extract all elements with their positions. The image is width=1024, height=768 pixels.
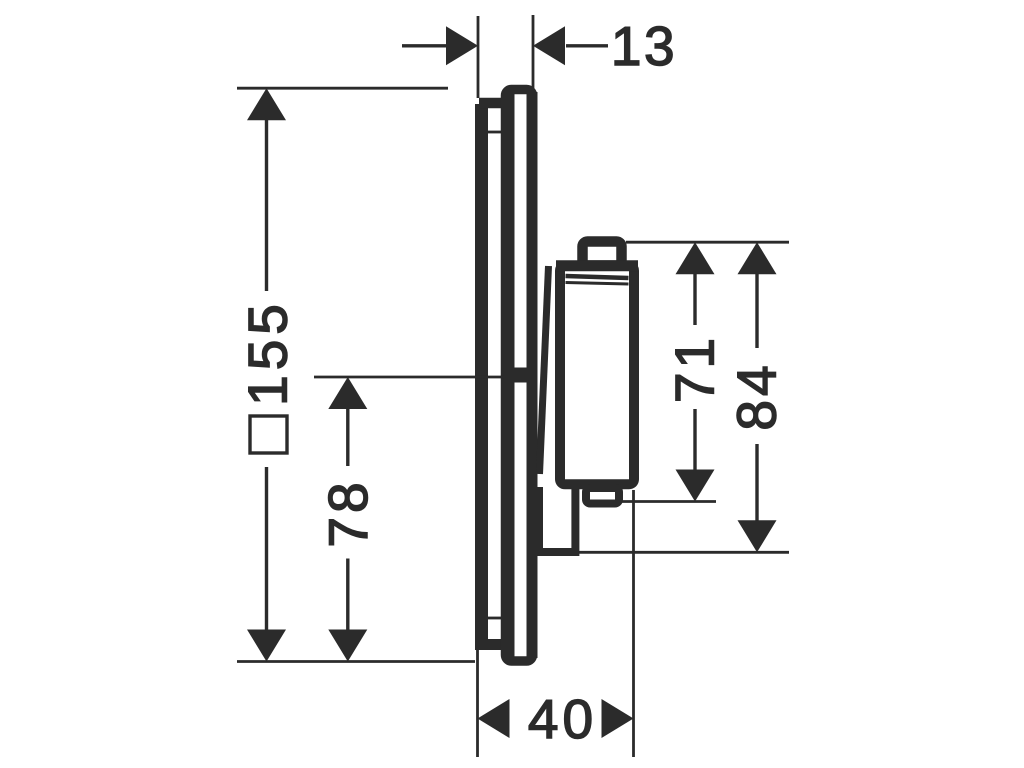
svg-text:71: 71 [664, 334, 726, 403]
arrowhead 13 right (points left) [533, 26, 565, 65]
arrowhead 71 top (points up) [676, 242, 715, 274]
dimension 13 left arrow tail [402, 44, 446, 47]
front plate (155x155 escutcheon) [506, 90, 533, 662]
handle body top edge reinforced [556, 260, 638, 271]
dimension 84 line upper segment [755, 272, 758, 348]
svg-text:155: 155 [237, 299, 299, 406]
label square 155 symbol [250, 416, 287, 453]
svg-text:40: 40 [528, 688, 597, 750]
back plate left edge [475, 104, 488, 650]
svg-text:13: 13 [611, 15, 677, 77]
extension line: 155 top [237, 87, 448, 90]
arrowhead 78 bottom (points down) [328, 630, 367, 662]
arrowhead 40 right (points right) [602, 699, 634, 738]
arrowhead 84 bottom (points down) [738, 520, 777, 552]
extension line: 78 top (plate centre split) [314, 376, 504, 379]
arrowhead 13 left (points right) [446, 26, 478, 65]
svg-text:84: 84 [726, 361, 788, 430]
bottom cap [586, 488, 619, 504]
extension line: 84 bottom (housing bottom) [577, 551, 789, 554]
dimension 84 line lower segment [755, 444, 758, 522]
handle body double line 2 [566, 283, 629, 285]
back plate corner tick bottom [488, 617, 503, 620]
arrowhead 40 left (points left) [478, 699, 510, 738]
svg-text:78: 78 [317, 478, 379, 547]
back plate corner tick top [488, 131, 503, 134]
dimension 71 line lower segment [693, 409, 696, 471]
handle body double line 1 [566, 276, 629, 278]
front plate right edge reinforced [527, 92, 538, 658]
handle body [560, 266, 634, 485]
dimension 13 right arrow tail [566, 44, 608, 47]
arrowhead 155 bottom (points down) [247, 630, 286, 662]
extension line: 71/84 top (cap top) [626, 241, 789, 244]
arrowhead 155 top (points up) [247, 88, 286, 120]
front plate left edge reinforced [503, 92, 515, 658]
front plate seam block [512, 368, 528, 383]
arrowhead 71 bottom (points down) [676, 470, 715, 502]
extension line: 155/78 bottom [237, 660, 475, 663]
back plate top edge [479, 98, 503, 109]
back plate bottom edge [475, 639, 503, 650]
extension line: wall plane top (13 left) [477, 16, 480, 103]
back plate fill [475, 98, 503, 650]
top cap (handle knob) [583, 242, 622, 266]
lower housing step [539, 487, 575, 552]
sleeve line behind handle [540, 266, 549, 474]
extension line: 71 bottom (cap bottom) [621, 500, 716, 503]
dimension 78 line upper segment [346, 407, 349, 466]
extension line: 40 left (wall plane bottom) [476, 643, 479, 757]
arrowhead 78 top (points up) [328, 377, 367, 409]
dimension 78 line lower segment [346, 559, 349, 632]
arrowhead 84 top (points up) [738, 242, 777, 274]
dimension 155 line lower segment [265, 467, 268, 631]
extension line: 40 right (handle front) [632, 490, 635, 757]
extension line: plate front top (13 right) [532, 15, 535, 89]
dimension 71 line upper segment [693, 272, 696, 325]
dimension 155 line upper segment [265, 118, 268, 291]
